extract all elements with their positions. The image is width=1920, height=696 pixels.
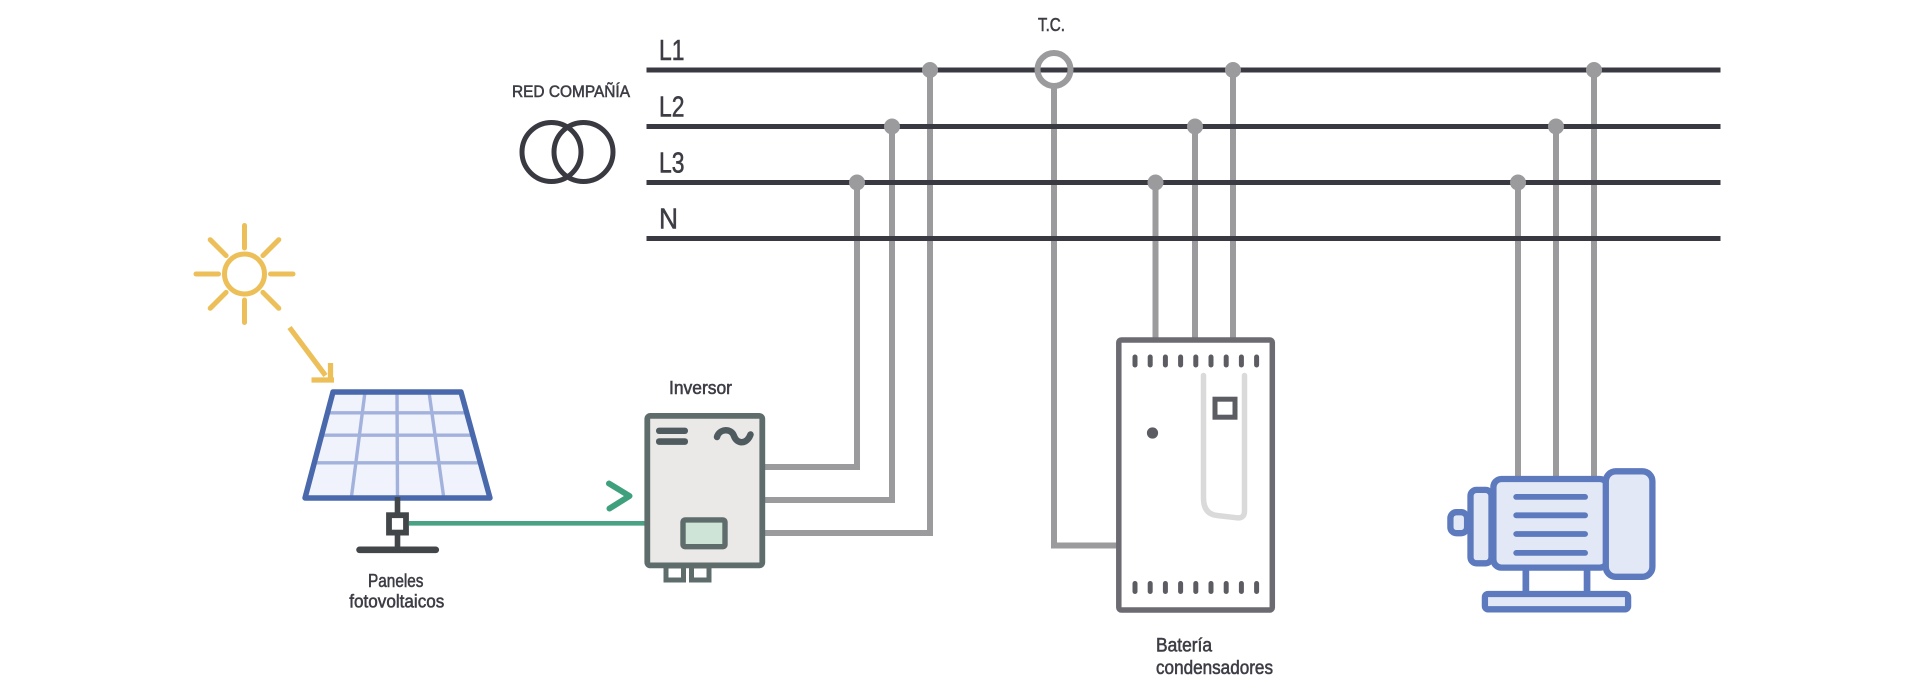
capacitor bank bottom vent dashes [1133,581,1260,594]
solar panel frame [305,392,490,498]
node motor-L1 [1586,62,1602,78]
panel stand post upper [395,497,401,514]
inverter DC symbol bars [656,428,688,434]
capacitor bank box [1119,340,1273,610]
node motor-L3 [1510,175,1526,191]
panel stand junction box [389,515,406,532]
inverter foot left [666,566,684,580]
wire T.C. to capacitor bank [1054,84,1120,546]
capacitor bank door outline [1204,376,1245,518]
capacitor bank door latch square [1215,399,1235,417]
svg-text:Batería: Batería [1156,636,1212,657]
svg-text:Inversor: Inversor [669,378,732,398]
svg-text:T.C.: T.C. [1038,15,1065,35]
motor body [1493,479,1608,568]
current transformer T.C. ring [1038,53,1071,86]
node inverter-L2 [884,119,900,135]
svg-text:condensadores: condensadores [1156,658,1273,679]
capacitor bank top vent dashes [1133,355,1260,368]
motor left nub [1450,512,1467,533]
svg-text:Paneles: Paneles [368,571,424,591]
panel stand post lower [395,535,401,550]
transformer symbol circle left [522,123,581,182]
solar panel fill [305,392,490,498]
sun [196,226,293,323]
bus N [647,236,1721,241]
svg-text:L1: L1 [659,35,685,67]
panel stand base bar [360,546,436,553]
motor right end cap [1606,471,1653,577]
node inverter-L3 [849,175,865,191]
svg-text:L2: L2 [659,92,685,124]
wire capacitor bank to L1 [1230,70,1236,345]
inverter foot right [692,566,710,580]
bus L1 [647,68,1721,73]
node capacitor-L1 [1225,62,1241,78]
node capacitor-L3 [1148,175,1164,191]
motor leg right [1584,568,1591,594]
motor leg left [1523,568,1530,594]
motor left mid block [1471,490,1492,563]
node inverter-L1 [922,62,938,78]
bus L3 [647,180,1721,185]
wire inverter to L2 [764,127,892,501]
green chevron DC flow [609,484,630,509]
bus L2 [647,124,1721,129]
capacitor bank indicator dot [1147,427,1158,438]
inverter display screen [683,520,725,547]
inverter AC sine symbol [717,430,751,442]
svg-text:L3: L3 [659,148,685,180]
wire motor to L2 [1553,127,1559,491]
motor base plate [1485,594,1628,609]
wire inverter to L1 [764,70,930,533]
inverter U1 body [647,416,762,566]
svg-text:fotovoltaicos: fotovoltaicos [349,592,444,612]
wire motor to L3 [1515,183,1521,491]
node capacitor-L2 [1187,119,1203,135]
svg-text:N: N [659,204,678,236]
transformer symbol circle right [554,123,613,182]
motor cooling fins [1513,494,1588,556]
green wire panel to inverter [409,521,646,526]
wire motor to L1 [1591,70,1597,490]
node motor-L2 [1548,119,1564,135]
wire capacitor bank to L2 [1192,127,1198,346]
solar panel grid [314,392,480,498]
wire capacitor bank to L3 [1153,183,1159,346]
svg-text:RED COMPAÑÍA: RED COMPAÑÍA [512,82,631,101]
wire inverter to L3 [764,183,857,468]
sun ray arrow [290,328,326,376]
